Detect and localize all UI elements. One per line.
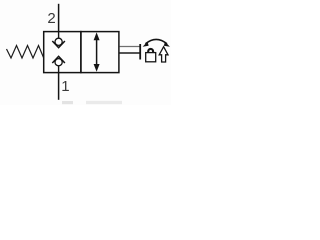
- check valve top (seat below ball): [52, 32, 65, 48]
- check valve bottom (seat above ball): [52, 56, 65, 72]
- svg-text:1: 1: [61, 78, 69, 95]
- port 1 line: [58, 73, 60, 100]
- valve body: left position box: [44, 32, 81, 73]
- flow arrow (right position, free flow both ways): [94, 32, 100, 71]
- rotate arrow (curved double-headed): [143, 39, 170, 46]
- actuator end bar: [139, 44, 141, 60]
- port 2 line: [58, 4, 60, 32]
- faint cropped text remnant (bottom left of port 1): [62, 101, 73, 104]
- manual actuator shaft (upper rod line): [120, 46, 140, 48]
- faint cropped text remnant (bottom middle): [86, 101, 122, 104]
- shift up-arrow icon: [159, 47, 168, 62]
- spring (return spring, left side): [7, 46, 44, 59]
- manual actuator shaft (lower rod line): [120, 52, 140, 54]
- padlock icon: [146, 49, 156, 62]
- valve body: right position box: [81, 32, 119, 73]
- svg-text:2: 2: [47, 10, 55, 27]
